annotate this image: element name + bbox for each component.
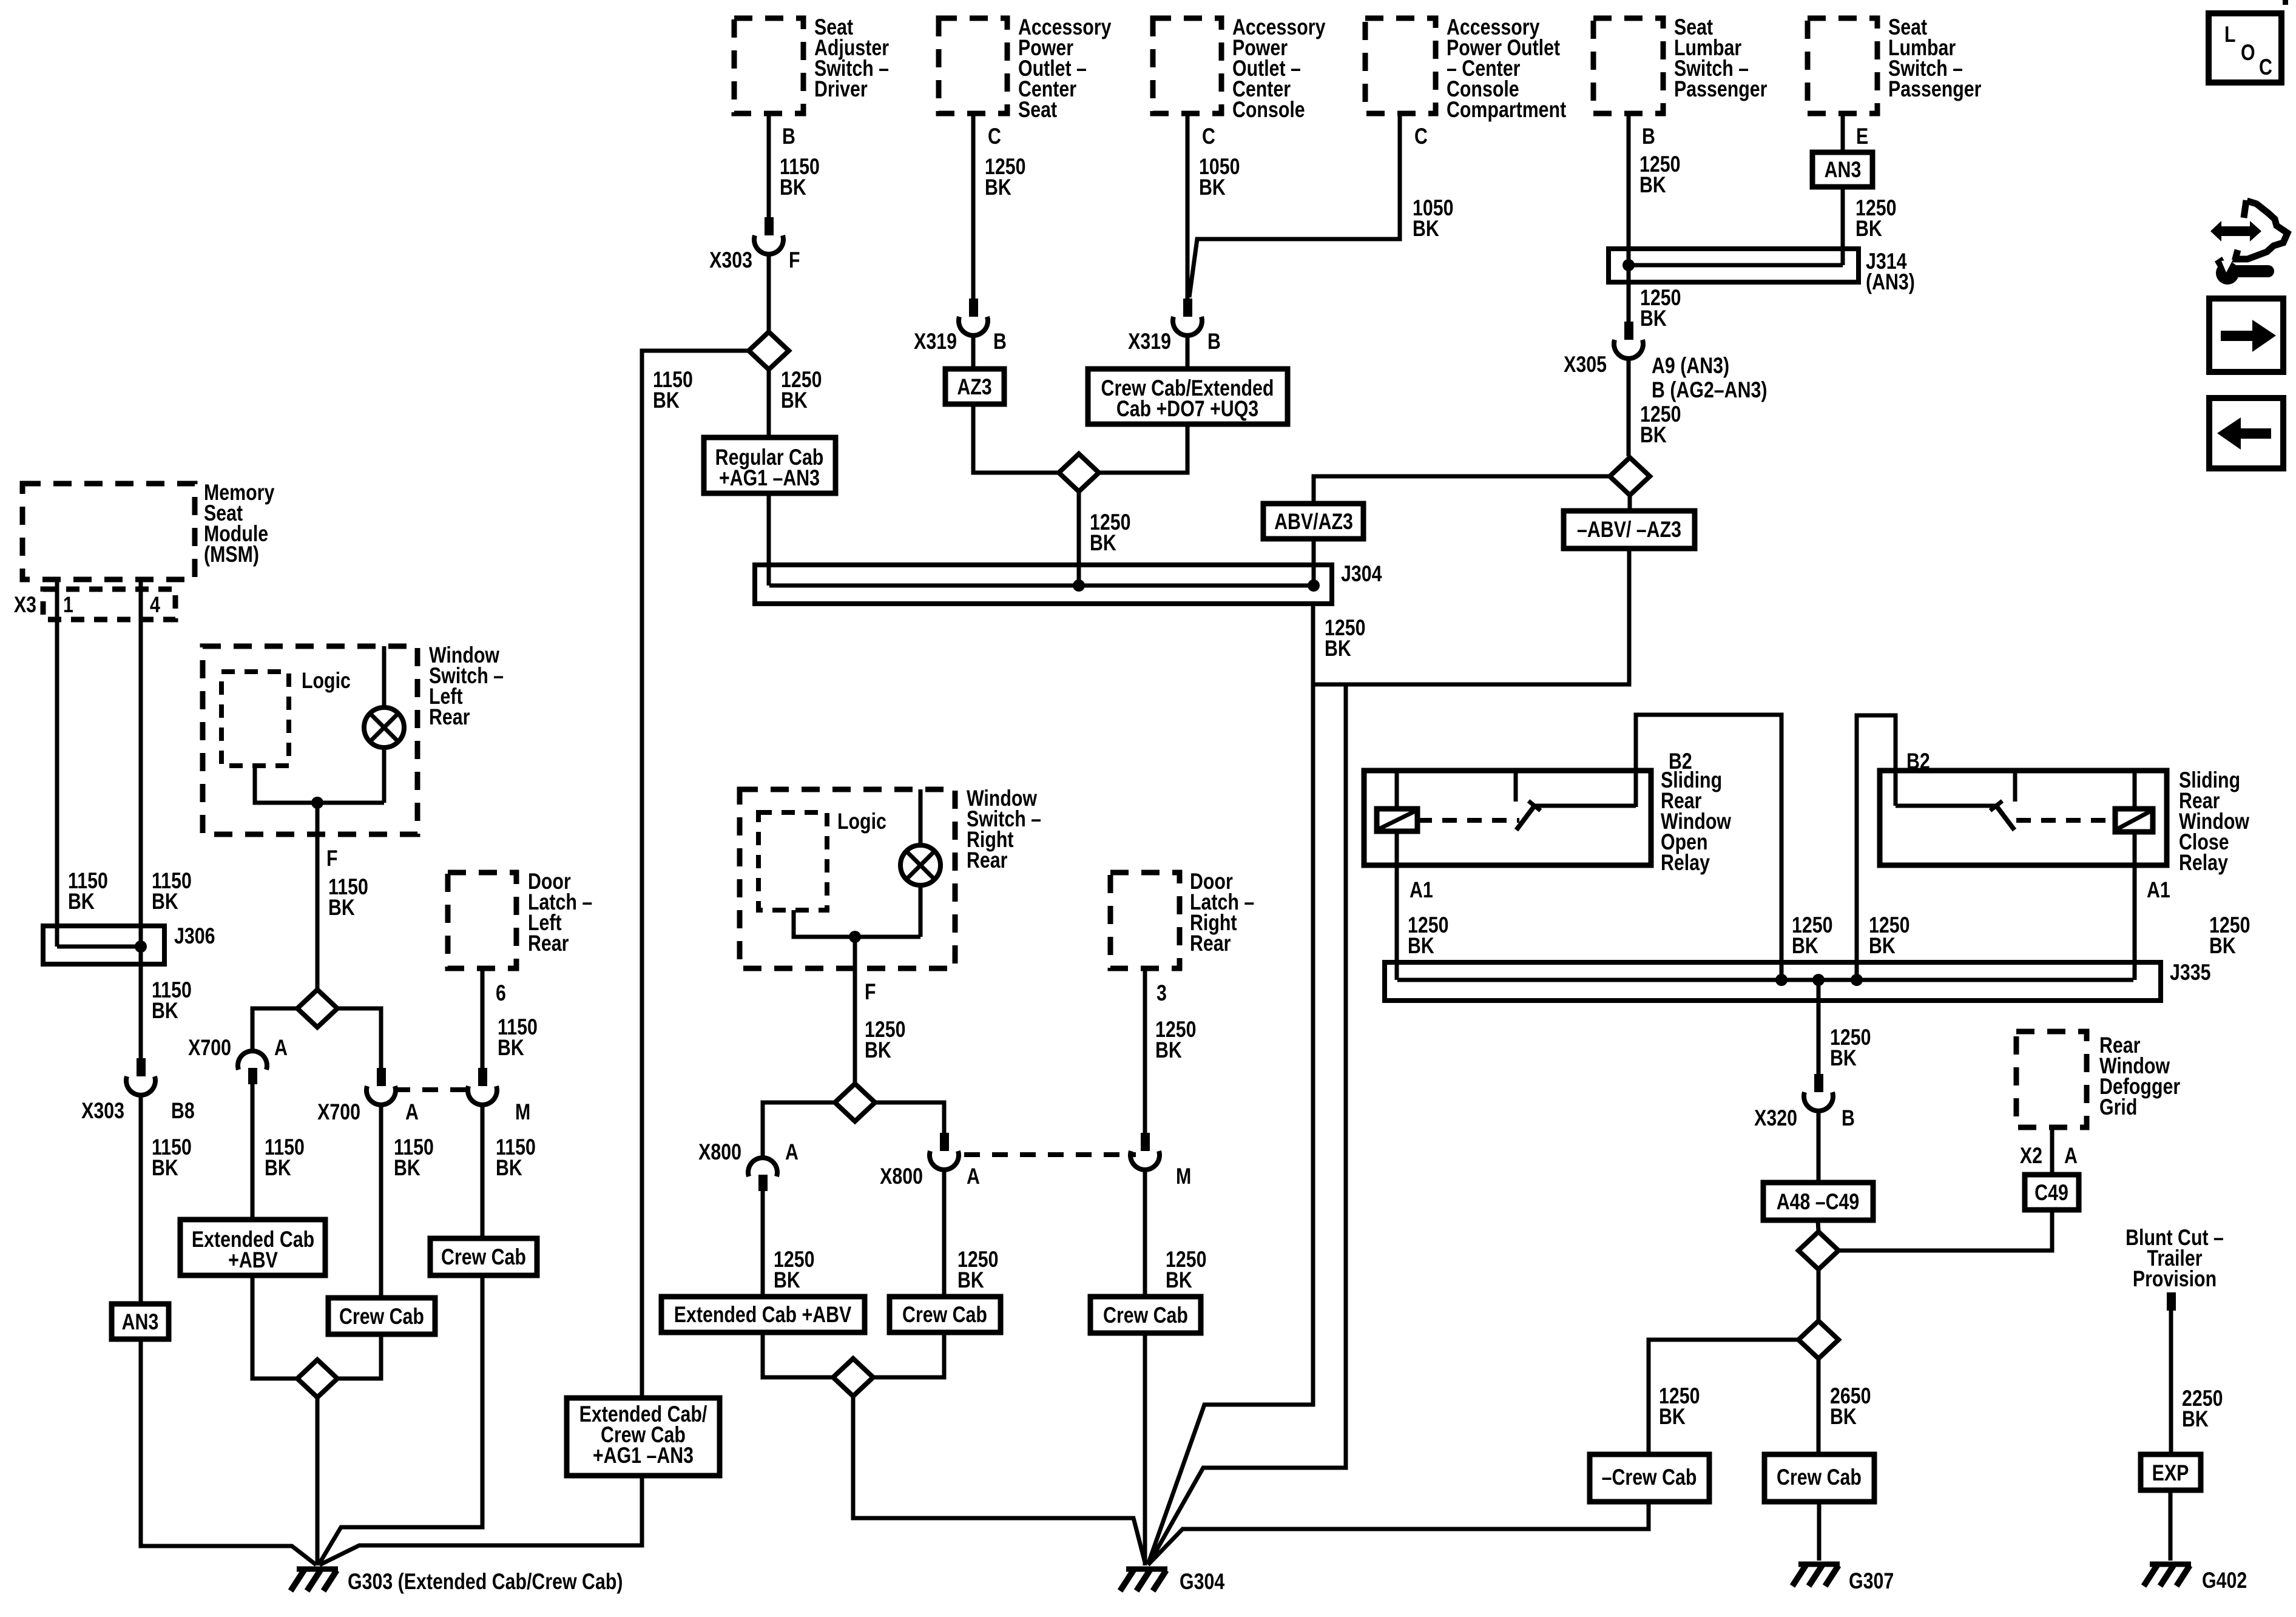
wire to splice S4 — [1818, 1220, 1818, 1232]
svg-text:C: C — [1414, 124, 1428, 149]
option box: Extended Cab/Crew Cab +AG1 -AN3 — [567, 1398, 720, 1476]
svg-text:BK: BK — [957, 1268, 984, 1293]
wire 1150 BK long run to Extended Cab/Crew Cab +AG1 -AN3 — [642, 351, 749, 1398]
wire label below J306 — [152, 977, 192, 1024]
svg-text:Logic: Logic — [302, 668, 351, 694]
wire 1250 BK AN3 to J314 — [1843, 187, 1896, 265]
svg-text:Rear: Rear — [967, 848, 1007, 873]
option box: AN3 (driver branch) — [112, 1304, 169, 1339]
option box: C49 — [2025, 1175, 2079, 1210]
wire +AG1 box to ground G303 — [320, 1476, 642, 1565]
svg-text:C: C — [1202, 124, 1215, 149]
svg-text:B: B — [993, 329, 1007, 354]
option box: Crew Cab (M left) — [430, 1238, 537, 1275]
wire splice S3 to ABV/AZ3 — [1314, 476, 1610, 504]
svg-text:B: B — [1842, 1106, 1855, 1131]
connector X2 pin A wire — [2020, 1127, 2078, 1175]
svg-text:X303: X303 — [81, 1098, 124, 1124]
svg-text:Extended Cab +ABV: Extended Cab +ABV — [674, 1302, 852, 1328]
relay K2 pin A1 wire 1250 BK to J335 — [2135, 832, 2250, 980]
wire -Crew Cab to ground G304 — [1148, 1502, 1649, 1565]
wire Crew Cab to splice S7 — [337, 1334, 381, 1379]
option box: A48 -C49 — [1763, 1183, 1873, 1220]
svg-text:C49: C49 — [2034, 1180, 2068, 1206]
connector link dashed right group — [964, 1152, 1136, 1157]
wire -ABV/-AZ3 down to junction — [1313, 549, 1629, 684]
option box: AN3 (passenger lumbar) — [1812, 152, 1872, 187]
svg-text:Console: Console — [1232, 97, 1305, 123]
svg-text:L: L — [2224, 22, 2236, 47]
svg-text:BK: BK — [781, 388, 808, 413]
svg-text:Compartment: Compartment — [1447, 97, 1566, 123]
relay K2 coil dashed link — [2016, 818, 2114, 823]
wire 2650 BK splice S5 to Crew Cab — [1818, 1359, 1871, 1454]
svg-text:BK: BK — [1659, 1404, 1686, 1430]
svg-text:BK: BK — [1830, 1045, 1857, 1071]
wire 1050 BK from Console Compartment outlet — [1189, 113, 1453, 297]
svg-text:A1: A1 — [1410, 877, 1433, 903]
svg-text:Cab +DO7 +UQ3: Cab +DO7 +UQ3 — [1116, 396, 1258, 422]
pin C label 3 — [1414, 124, 1428, 149]
wire 2250 BK to EXP — [2171, 1311, 2223, 1454]
relay K2 switch — [1896, 771, 2015, 830]
svg-text:Rear: Rear — [429, 704, 470, 730]
component: Door Latch - Right Rear (dashed box) — [1110, 869, 1254, 968]
svg-text:A: A — [785, 1139, 799, 1165]
svg-text:J304: J304 — [1341, 561, 1382, 587]
svg-text:Logic: Logic — [837, 809, 886, 834]
svg-text:BK: BK — [496, 1155, 522, 1181]
svg-text:Provision: Provision — [2133, 1266, 2217, 1292]
indicator lamp right — [900, 789, 940, 937]
svg-text:BK: BK — [653, 388, 680, 413]
relay K1 box: Sliding Rear Window Open Relay — [1364, 768, 1732, 876]
svg-text:BK: BK — [1855, 216, 1882, 241]
wire 1250 BK to Crew Cab (right mid) — [944, 1168, 998, 1297]
svg-text:E: E — [1856, 124, 1868, 149]
pin C label 2 — [1202, 124, 1215, 149]
page mark dot — [2283, 0, 2288, 5]
svg-text:G402: G402 — [2202, 1568, 2247, 1593]
svg-text:B: B — [1642, 124, 1655, 149]
component: Door Latch - Left Rear (dashed box) — [448, 869, 592, 968]
connector X3 (dashed box) pins 1 and 4 — [14, 589, 175, 619]
wire 1250 BK splice S2 to J304 — [1079, 491, 1130, 586]
svg-text:ABV/AZ3: ABV/AZ3 — [1274, 509, 1353, 535]
wire 1250 BK J314 to X305 — [1629, 265, 1681, 331]
pin E label — [1856, 124, 1868, 149]
wire splice S9 to ground G304 — [853, 1396, 1146, 1565]
svg-text:X3: X3 — [14, 592, 36, 618]
connector X700 pin A (crew cab) — [317, 1068, 419, 1125]
wire Crew Cab M to ground G303 — [319, 1275, 482, 1565]
svg-text:Rear: Rear — [528, 931, 569, 956]
svg-text:BK: BK — [1155, 1038, 1182, 1063]
option box: Extended Cab +ABV (left) — [180, 1220, 325, 1275]
option box: Regular Cab +AG1 -AN3 — [704, 437, 836, 493]
wire Crew Cab M to ground G304 — [1143, 1333, 1147, 1565]
splice diamond S9 — [833, 1359, 873, 1396]
svg-text:AZ3: AZ3 — [957, 374, 991, 400]
svg-text:X319: X319 — [1128, 329, 1171, 354]
wire 1250 BK J304 to ground G304 (long) — [1148, 604, 1365, 1564]
svg-text:F: F — [326, 846, 338, 871]
svg-text:BK: BK — [774, 1268, 800, 1293]
svg-text:BK: BK — [865, 1038, 891, 1063]
svg-text:BK: BK — [265, 1155, 291, 1181]
svg-text:Passenger: Passenger — [1674, 76, 1767, 102]
blunt cut terminal — [2167, 1292, 2176, 1311]
wire to X800 A right — [875, 1102, 944, 1133]
connector X800 pin A (extended cab) — [698, 1139, 799, 1191]
splice diamond S8 — [835, 1084, 875, 1121]
svg-text:BK: BK — [780, 175, 806, 200]
wire 1050 BK from Center Console outlet — [1187, 113, 1240, 299]
svg-text:Grid: Grid — [2099, 1095, 2137, 1120]
connector pin M (right group) — [1130, 1133, 1191, 1189]
wire 1150 BK X303 to AN3 — [141, 1093, 192, 1304]
svg-text:F: F — [865, 979, 876, 1005]
splice diamond S1 — [749, 332, 789, 370]
svg-text:BK: BK — [1830, 1404, 1857, 1430]
wire from Seat Lumbar E to AN3 — [1841, 113, 1845, 152]
wire 1250 BK to Extended Cab +ABV (right) — [763, 1191, 814, 1297]
svg-text:3: 3 — [1156, 981, 1167, 1006]
svg-text:Crew Cab: Crew Cab — [1103, 1303, 1188, 1328]
svg-text:AN3: AN3 — [122, 1309, 159, 1335]
component: Memory Seat Module MSM (dashed box) — [22, 480, 274, 579]
svg-text:Relay: Relay — [2179, 850, 2228, 876]
svg-text:BK: BK — [1640, 422, 1667, 448]
svg-text:BK: BK — [1639, 172, 1666, 198]
wire 1150 BK from Seat Adjuster Switch — [769, 113, 820, 217]
svg-text:J306: J306 — [174, 923, 215, 949]
icon: right arrow box — [2209, 299, 2283, 372]
svg-text:+AG1 –AN3: +AG1 –AN3 — [593, 1443, 694, 1468]
wire splice S7 to ground G303 — [316, 1397, 320, 1565]
connector X700 pin A (extended cab) — [188, 1035, 288, 1084]
svg-text:B2: B2 — [1669, 749, 1692, 774]
wire splice S4 to splice S5 — [1817, 1269, 1821, 1321]
svg-text:Rear: Rear — [1190, 931, 1231, 956]
wire 1150 BK MSM pin 4 — [141, 579, 192, 1058]
splice diamond S6 — [297, 990, 337, 1027]
svg-text:BK: BK — [1408, 933, 1434, 959]
svg-text:A9 (AN3): A9 (AN3) — [1652, 353, 1729, 379]
wire Regular Cab to J304 — [767, 493, 771, 586]
svg-text:B: B — [782, 124, 795, 149]
wire Crew Cab to splice S9 — [873, 1332, 944, 1377]
splice diamond S7 — [297, 1360, 337, 1397]
relay K1 switch — [1516, 771, 1636, 830]
component: Seat Adjuster Switch - Driver (dashed box) — [734, 15, 889, 113]
blunt cut label — [2125, 1225, 2224, 1292]
ground G307 — [1792, 1564, 1894, 1594]
svg-text:BK: BK — [152, 998, 178, 1024]
svg-text:A: A — [967, 1164, 980, 1189]
svg-text:4: 4 — [150, 592, 160, 618]
svg-text:EXP: EXP — [2152, 1460, 2189, 1486]
icon: LOC box — [2209, 13, 2281, 83]
wire ABV/AZ3 to J304 — [1312, 539, 1316, 586]
splice diamond S2 — [1059, 454, 1099, 491]
relay K1 coil — [1377, 771, 1417, 831]
wire 1250 BK splice S5 to -Crew Cab — [1649, 1340, 1798, 1454]
svg-text:G304: G304 — [1180, 1569, 1224, 1595]
svg-text:B8: B8 — [171, 1098, 195, 1124]
svg-text:+AG1 –AN3: +AG1 –AN3 — [719, 465, 820, 491]
pin B label 5 — [1642, 124, 1655, 149]
svg-text:X700: X700 — [188, 1035, 231, 1061]
option box: ABV/AZ3 — [1263, 504, 1363, 539]
svg-text:BK: BK — [2209, 933, 2236, 959]
connector X319 pin B (right) — [1128, 299, 1221, 354]
wire Extended Cab +ABV to splice S9 — [763, 1332, 834, 1377]
svg-text:M: M — [515, 1099, 530, 1125]
ground G303 (Extended Cab/Crew Cab) — [291, 1569, 623, 1595]
svg-text:–ABV/ –AZ3: –ABV/ –AZ3 — [1577, 517, 1681, 542]
connector link dashed left group — [394, 1087, 470, 1092]
wire 1250 BK to Crew Cab (M right) — [1145, 1168, 1206, 1297]
wire X320 to A48-C49 — [1817, 1109, 1821, 1183]
svg-text:BK: BK — [1325, 636, 1351, 661]
svg-text:X320: X320 — [1754, 1106, 1797, 1131]
wire to X700 A left — [252, 1008, 297, 1053]
wire 1150 BK to Crew Cab (M left) — [482, 1103, 536, 1238]
svg-text:C: C — [2259, 55, 2272, 80]
wire 1150 BK to Extended Cab +ABV — [252, 1084, 305, 1220]
logic output junction right — [794, 910, 920, 943]
wire 1150 BK MSM pin 1 to J306 — [57, 579, 108, 947]
svg-text:X800: X800 — [880, 1164, 923, 1189]
svg-text:B (AG2–AN3): B (AG2–AN3) — [1652, 377, 1767, 403]
component: Accessory Power Outlet - Center Seat (dashed box) — [939, 15, 1112, 123]
svg-text:Crew Cab: Crew Cab — [441, 1244, 526, 1270]
wire to Crew Cab/Extended Cab box — [1186, 334, 1190, 369]
svg-text:+ABV: +ABV — [228, 1247, 278, 1273]
svg-text:1: 1 — [63, 592, 73, 618]
svg-text:BK: BK — [152, 889, 178, 914]
svg-text:G303 (Extended Cab/Crew Cab): G303 (Extended Cab/Crew Cab) — [348, 1569, 623, 1595]
svg-text:BK: BK — [1166, 1268, 1192, 1293]
indicator lamp left — [364, 646, 404, 803]
relay K2 pin B2 wire to J335 — [1857, 715, 1930, 980]
logic block (dashed) left — [221, 668, 351, 766]
wire EXP to ground G402 — [2169, 1490, 2173, 1561]
wire 1250 BK from Seat Lumbar B — [1629, 113, 1680, 265]
svg-text:M: M — [1176, 1164, 1191, 1189]
option box: EXP — [2141, 1454, 2201, 1490]
option box: Extended Cab +ABV (right) — [661, 1297, 865, 1332]
svg-text:F: F — [789, 248, 800, 273]
logic block (dashed) right — [758, 809, 886, 910]
connector X303 pin F — [709, 217, 800, 273]
svg-text:Crew Cab: Crew Cab — [339, 1304, 424, 1329]
connector X303 pin B8 — [81, 1058, 195, 1124]
option box: -Crew Cab — [1590, 1454, 1709, 1502]
svg-text:Crew Cab: Crew Cab — [1777, 1465, 1862, 1490]
wire 1250 BK J335 to X320 — [1818, 980, 1871, 1074]
svg-text:BK: BK — [394, 1155, 420, 1181]
svg-text:Driver: Driver — [814, 76, 868, 102]
svg-text:X800: X800 — [698, 1139, 741, 1165]
svg-text:BK: BK — [1640, 306, 1667, 331]
svg-text:BK: BK — [985, 175, 1011, 200]
svg-text:BK: BK — [1090, 530, 1116, 556]
svg-text:(AN3): (AN3) — [1866, 269, 1915, 295]
wire 1150 BK to Crew Cab (left mid) — [381, 1103, 434, 1298]
wire pin F window switch left — [317, 803, 368, 990]
svg-text:A: A — [405, 1099, 419, 1125]
svg-text:BK: BK — [498, 1035, 524, 1061]
svg-text:X319: X319 — [914, 329, 957, 354]
wire to X700 A right — [337, 1008, 381, 1068]
splice diamond S4 — [1798, 1232, 1838, 1269]
wire 1250 BK from Center Seat outlet — [973, 113, 1025, 299]
relay K1 pin B2 wire to J335 — [1636, 715, 1832, 980]
svg-text:BK: BK — [1792, 933, 1818, 959]
svg-text:(MSM): (MSM) — [204, 542, 259, 567]
svg-text:C: C — [988, 124, 1001, 149]
wire splice S4 to C49 — [1838, 1210, 2052, 1251]
component: Seat Lumbar Switch - Passenger (dashed box) — [1593, 15, 1767, 113]
splice pack J335 — [1385, 960, 2210, 1001]
svg-text:X700: X700 — [317, 1099, 360, 1125]
splice diamond S5 — [1798, 1321, 1838, 1359]
option box: Crew Cab/Extended Cab +DO7 +UQ3 — [1088, 369, 1288, 424]
option box: Crew Cab (G307 branch) — [1764, 1454, 1874, 1502]
svg-text:X2: X2 — [2020, 1143, 2042, 1169]
wire 1250 BK X305 to splice S3 — [1629, 357, 1681, 456]
svg-text:O: O — [2241, 40, 2255, 66]
wire to splice — [767, 252, 771, 332]
svg-text:BK: BK — [68, 889, 95, 914]
splice pack J314 (AN3) — [1609, 249, 1915, 295]
svg-text:X303: X303 — [709, 248, 752, 273]
svg-text:Seat: Seat — [1018, 97, 1057, 123]
option box: AZ3 — [945, 369, 1004, 404]
svg-text:Relay: Relay — [1661, 850, 1710, 876]
relay K2 coil — [2115, 771, 2153, 832]
component: Window Switch - Left Rear (dashed box) — [203, 643, 504, 834]
wire pin F window switch right — [855, 937, 905, 1084]
svg-text:B2: B2 — [1906, 749, 1930, 774]
svg-text:A: A — [2064, 1143, 2078, 1169]
splice diamond S3 — [1610, 457, 1650, 495]
wire pin 3 door latch right — [1145, 968, 1196, 1133]
svg-text:BK: BK — [1869, 933, 1896, 959]
wire pin 6 door latch left — [482, 968, 538, 1068]
wire AN3 to ground G303 — [141, 1339, 316, 1565]
wire DO7 box to splice S2 — [1099, 424, 1187, 473]
svg-text:A: A — [274, 1035, 288, 1061]
svg-text:AN3: AN3 — [1825, 157, 1862, 183]
ground G304 — [1120, 1569, 1224, 1595]
svg-text:Crew Cab: Crew Cab — [902, 1302, 987, 1328]
option box: -ABV/-AZ3 — [1564, 511, 1695, 549]
component: Window Switch - Right Rear (dashed box) — [740, 786, 1041, 968]
connector X320 pin B — [1754, 1074, 1855, 1131]
svg-text:B: B — [1207, 329, 1221, 354]
connector pin M (left group) — [468, 1068, 530, 1125]
logic output junction left — [255, 766, 384, 809]
svg-text:X305: X305 — [1564, 352, 1607, 377]
component: Seat Lumbar Switch - Passenger 2 (dashed box) — [1808, 15, 1981, 113]
connector X319 pin B (left) — [914, 299, 1007, 354]
component: Accessory Power Outlet - Center Console Compartment (dashed box) — [1365, 15, 1566, 123]
connector X800 pin A (crew cab) — [880, 1133, 980, 1189]
relay K1 pin A1 wire 1250 BK to J335 — [1397, 831, 1448, 980]
splice pack J306 — [43, 923, 215, 964]
relay K2 box: Sliding Rear Window Close Relay — [1880, 768, 2250, 876]
svg-text:BK: BK — [1199, 175, 1226, 200]
component: Accessory Power Outlet - Center Console (dashed box) — [1153, 15, 1326, 123]
wire AZ3 to splice S2 — [973, 404, 1059, 473]
svg-text:BK: BK — [1413, 216, 1439, 241]
svg-text:6: 6 — [496, 981, 506, 1006]
wire junction to ground G304 (long 2) — [1149, 684, 1346, 1564]
wire to X800 A left — [763, 1102, 835, 1160]
svg-text:G307: G307 — [1849, 1568, 1894, 1594]
option box: Crew Cab (left mid) — [328, 1298, 435, 1334]
svg-text:J335: J335 — [2170, 960, 2210, 985]
wire Extended Cab +ABV to splice S7 — [252, 1275, 298, 1379]
component: Rear Window Defogger Grid (dashed box) — [2016, 1031, 2180, 1127]
wire splice S3 to -ABV/-AZ3 — [1628, 495, 1632, 511]
svg-text:Passenger: Passenger — [1888, 76, 1981, 102]
wire Crew Cab to ground G307 — [1817, 1502, 1822, 1561]
connector X305 pin A9/B — [1564, 322, 1767, 403]
svg-text:A48 –C49: A48 –C49 — [1777, 1189, 1860, 1215]
ground G402 — [2144, 1564, 2247, 1593]
svg-text:BK: BK — [152, 1155, 178, 1181]
svg-text:A1: A1 — [2147, 877, 2170, 903]
icon: service info (arrows and wrench) — [2210, 200, 2288, 285]
pin B label — [782, 124, 795, 149]
option box: Crew Cab (M right) — [1090, 1297, 1201, 1333]
icon: left arrow box — [2209, 398, 2283, 468]
pin C label — [988, 124, 1001, 149]
wire to AZ3 — [971, 334, 976, 369]
svg-text:BK: BK — [2182, 1406, 2209, 1432]
svg-text:BK: BK — [328, 895, 355, 920]
relay K1 coil dashed link — [1417, 818, 1519, 823]
option box: Crew Cab (right mid) — [890, 1297, 1001, 1332]
wire 1250 BK to Regular Cab box — [769, 367, 822, 437]
svg-text:–Crew Cab: –Crew Cab — [1602, 1465, 1697, 1490]
splice pack J304 — [755, 561, 1382, 604]
